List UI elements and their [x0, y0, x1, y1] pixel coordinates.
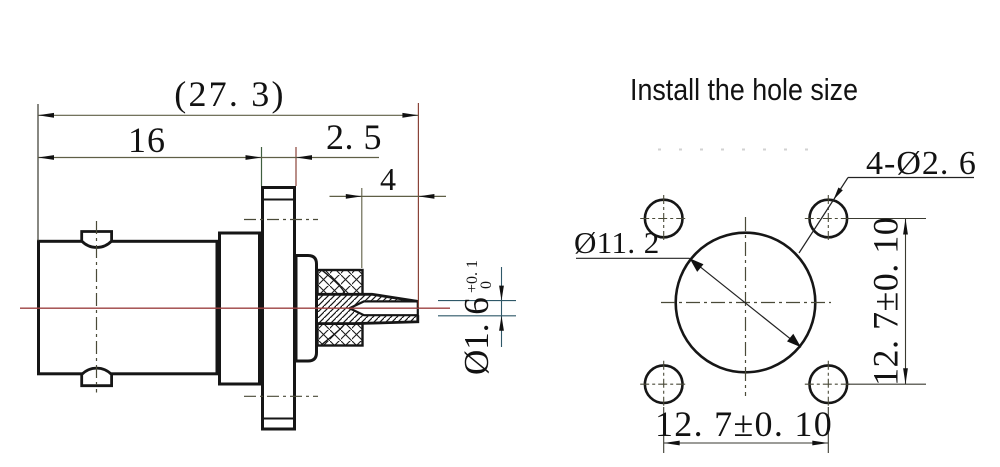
svg-text:12. 7±0. 10: 12. 7±0. 10: [655, 404, 833, 444]
insulator crosshatch block bottom: [318, 324, 363, 346]
front view: plate circle Ø11.2: [676, 233, 816, 373]
leader 4-Ø2.6: [799, 178, 848, 254]
extension line crosshatch-right (x=362): [361, 188, 363, 268]
dimension (27.3) line: [38, 114, 418, 116]
svg-text:0: 0: [478, 281, 495, 289]
arrow bottom 12.7 right: [903, 368, 908, 384]
arrow below Ø1.6: [499, 316, 504, 331]
svg-text:4: 4: [380, 161, 396, 197]
solder cup outline: [317, 294, 418, 323]
extension line pin top (Ø1.6): [438, 300, 516, 302]
svg-text:2. 5: 2. 5: [326, 117, 382, 157]
diameter arrow lower-right: [787, 334, 801, 348]
extension line hole BL (bottom dim): [663, 407, 665, 453]
flange cap line top: [261, 199, 296, 201]
insulator dome arc bottom: [322, 324, 345, 345]
insulator dome arc top: [322, 270, 345, 295]
solder cup hatched body: [317, 294, 418, 323]
arrow right of 16: [246, 155, 262, 160]
arrow right 12.7 bottom: [812, 441, 828, 446]
arrow right of (27.3): [402, 113, 418, 118]
hole top-left crosshair: [640, 195, 687, 242]
leader 4-Ø2.6 underline: [848, 177, 974, 179]
diameter leader underline: [576, 257, 690, 259]
extension line flange-left (x=261): [261, 147, 263, 186]
dimension 12.7 bottom line: [664, 442, 829, 444]
svg-text:Ø11. 2: Ø11. 2: [574, 225, 660, 260]
svg-text:4-Ø2. 6: 4-Ø2. 6: [866, 145, 977, 182]
svg-text:Install the hole size: Install the hole size: [630, 72, 858, 107]
connector body shell: [39, 241, 218, 373]
mounting flange: [263, 188, 295, 430]
pin bore (white): [350, 301, 418, 315]
hole top-left: [645, 200, 683, 238]
arrow right of 4: [418, 194, 434, 199]
diameter leader line: [690, 258, 802, 347]
extension line hole TR (right dim): [848, 218, 926, 220]
hole bottom-left: [645, 365, 683, 403]
dimension 16 / 2.5 line: [38, 157, 379, 159]
front view vertical centerline: [745, 217, 747, 396]
bayonet lug top: [82, 232, 112, 248]
flange cap line bottom: [261, 418, 296, 420]
label Ø1.6 +0.1/0 (rotated): [457, 260, 496, 375]
svg-text:(27. 3): (27. 3): [174, 74, 285, 114]
bayonet lug bottom: [82, 368, 112, 386]
hole bottom-left crosshair: [640, 361, 687, 408]
insulator crosshatch block top: [318, 270, 363, 294]
extension line hole BR (bottom dim): [827, 407, 829, 453]
diameter arrow upper-left: [690, 258, 704, 272]
hole top-right: [810, 200, 848, 238]
arrow above Ø1.6: [499, 286, 504, 301]
hole bottom-right crosshair: [805, 361, 852, 408]
front view horizontal centerline: [661, 302, 831, 304]
arrow right of 2.5: [296, 155, 312, 160]
flange hole centerline top: [244, 219, 318, 221]
svg-text:12. 7±0. 10: 12. 7±0. 10: [866, 217, 906, 386]
extension line left (x=38): [37, 104, 39, 241]
dimension 4 line: [330, 195, 447, 197]
hole top-right crosshair: [805, 195, 852, 242]
insulator bushing: [296, 256, 317, 362]
extension line hole BR (right dim): [848, 383, 926, 385]
dimension Ø1.6 line: [501, 267, 503, 347]
arrow left of 4: [346, 194, 362, 199]
label 12.7±0.10 right (rotated): [866, 217, 906, 386]
hole bottom-right: [810, 365, 848, 403]
svg-text:16: 16: [128, 120, 166, 160]
flange hole centerline bottom: [244, 395, 318, 397]
arrow left 12.7 bottom: [664, 441, 680, 446]
svg-text:Ø1. 6: Ø1. 6: [457, 297, 496, 375]
wire: lug vertical centerline: [96, 221, 98, 393]
extension line pin bottom (Ø1.6): [438, 315, 516, 317]
arrow 4-Ø2.6: [834, 188, 843, 200]
nut section: [220, 233, 260, 384]
arrow left of 16: [38, 155, 54, 160]
extension line flange-right (x=296): [295, 147, 297, 186]
extension line pin tip (x=418): [417, 103, 419, 307]
wire: horizontal centerline axis: [20, 307, 450, 309]
arrow top 12.7 right: [903, 219, 908, 235]
dimension 12.7 right line: [905, 219, 907, 385]
arrow left of (27.3): [38, 113, 54, 118]
faint artifact dashed line: [658, 149, 820, 151]
